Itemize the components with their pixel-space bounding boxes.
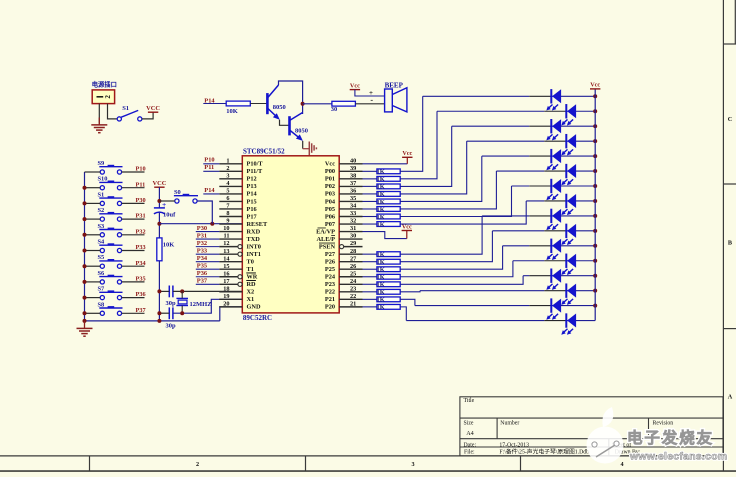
svg-text:P36: P36 <box>136 291 146 298</box>
pin 10 RXD <box>219 225 260 235</box>
svg-text:INT1: INT1 <box>247 251 261 258</box>
svg-text:S1: S1 <box>98 191 105 198</box>
svg-text:S9: S9 <box>98 160 105 167</box>
svg-text:C: C <box>728 116 732 123</box>
svg-text:1K: 1K <box>377 221 385 228</box>
svg-text:16: 16 <box>223 270 229 277</box>
pin 5 P14 <box>219 188 257 198</box>
wire connector pin2 to S1 <box>108 104 118 119</box>
svg-text:PSEN: PSEN <box>319 243 336 250</box>
svg-text:T1: T1 <box>247 266 254 273</box>
svg-text:1K: 1K <box>377 304 385 311</box>
svg-text:3: 3 <box>226 172 229 179</box>
svg-text:S7: S7 <box>98 286 106 293</box>
svg-text:P06: P06 <box>325 213 335 220</box>
junction <box>593 229 597 233</box>
svg-text:RESET: RESET <box>247 221 268 228</box>
svg-text:17-Oct-2013: 17-Oct-2013 <box>499 443 529 449</box>
junction <box>593 274 597 278</box>
resistor 1K (P20) <box>363 306 377 308</box>
svg-text:24: 24 <box>350 278 357 285</box>
junction <box>593 109 597 113</box>
wire VCC to capacitor <box>158 187 160 208</box>
pin 40 Vcc <box>325 157 363 167</box>
junction <box>83 280 87 284</box>
svg-text:31: 31 <box>350 225 356 232</box>
svg-text:18: 18 <box>223 285 229 292</box>
wire S5 to net P34 <box>122 265 145 267</box>
svg-text:X2: X2 <box>247 289 255 296</box>
sheet border bottom strip <box>0 455 723 457</box>
svg-text:P05: P05 <box>325 206 335 213</box>
pin 26 P25 <box>325 263 363 273</box>
svg-text:30: 30 <box>350 233 356 240</box>
wire S7 to net P36 <box>122 297 145 299</box>
svg-text:RXD: RXD <box>247 228 261 235</box>
svg-text:10K: 10K <box>163 242 175 249</box>
resistor 1K (P23) <box>363 283 377 285</box>
wire P24 to LED D12 <box>400 261 513 277</box>
svg-text:6: 6 <box>226 195 229 202</box>
svg-text:30p: 30p <box>166 323 177 330</box>
resistor 1K (P06) <box>363 216 377 218</box>
svg-text:P31: P31 <box>136 213 146 220</box>
resistor R2 10K (reset) <box>157 238 162 261</box>
svg-text:10: 10 <box>223 225 229 232</box>
resistor 1K (P21) <box>363 298 377 300</box>
svg-text:1K: 1K <box>377 297 385 304</box>
ground rail wire <box>85 320 220 322</box>
svg-text:P16: P16 <box>247 206 257 213</box>
junction <box>593 244 597 248</box>
junction <box>593 259 597 263</box>
wire Q1 emitter to Q2 base <box>280 120 290 126</box>
svg-text:2: 2 <box>226 165 229 172</box>
svg-text:1K: 1K <box>377 251 385 258</box>
svg-text:25: 25 <box>350 270 356 277</box>
svg-text:40: 40 <box>350 157 356 164</box>
wire P00 to LED D1 <box>400 96 423 171</box>
junction <box>83 264 87 268</box>
LED D7 <box>550 179 552 193</box>
svg-text:11: 11 <box>224 233 230 240</box>
pin 2 P11/T <box>219 165 263 175</box>
svg-text:Vcc: Vcc <box>350 82 360 89</box>
LED D5 <box>550 149 552 163</box>
wire C3 to X1 pin <box>173 299 242 313</box>
svg-text:P22: P22 <box>325 289 335 296</box>
wire Q1 collector rail <box>279 81 303 114</box>
pin 34 P05 <box>325 203 363 213</box>
wire S2 to net P31 <box>122 218 145 220</box>
svg-text:P30: P30 <box>136 197 146 204</box>
svg-text:P24: P24 <box>325 274 336 281</box>
svg-text:P02: P02 <box>325 183 335 190</box>
svg-text:VCC: VCC <box>146 105 160 112</box>
svg-text:1K: 1K <box>377 199 385 206</box>
junction <box>593 154 597 158</box>
ground (power input) <box>98 118 100 125</box>
svg-text:P11: P11 <box>204 164 214 171</box>
pin 30 ALE/P <box>316 233 362 243</box>
wire connector pin1 to ground <box>98 104 100 124</box>
pin 31 EA/VP <box>316 225 362 235</box>
junction <box>593 124 597 128</box>
svg-text:14: 14 <box>223 255 230 262</box>
svg-text:电子发烧友: 电子发烧友 <box>627 428 714 447</box>
svg-text:Vcc: Vcc <box>590 82 600 89</box>
resistor 1K (P22) <box>363 291 377 293</box>
pin 28 P27 <box>325 248 363 258</box>
wire P04 to LED D5 <box>400 156 482 201</box>
crystal Y1 12MHZ <box>176 297 188 299</box>
resistor 1K (P07) <box>363 223 377 225</box>
svg-text:P25: P25 <box>325 266 335 273</box>
wire S0 to reset wire <box>197 201 212 224</box>
svg-text:P17: P17 <box>247 213 257 220</box>
svg-text:S0: S0 <box>174 189 181 196</box>
svg-text:T0: T0 <box>247 258 254 265</box>
button bus wire <box>84 172 86 321</box>
svg-text:35: 35 <box>350 195 356 202</box>
svg-text:P11: P11 <box>136 181 146 188</box>
LED D12 <box>565 254 567 268</box>
wire S9 to net P10 <box>122 171 145 173</box>
svg-text:Number: Number <box>500 421 519 427</box>
svg-text:P07: P07 <box>325 221 335 228</box>
svg-text:4: 4 <box>620 461 623 468</box>
pin 4 P13 <box>219 180 256 190</box>
resistor 1K (P27) <box>363 253 377 255</box>
svg-text:P20: P20 <box>325 304 335 311</box>
svg-text:22: 22 <box>350 293 356 300</box>
wire P21 to LED D15 <box>400 299 415 305</box>
resistor R1 10K (base) <box>226 101 250 106</box>
pin 13 INT1 <box>219 248 261 258</box>
svg-text:P31: P31 <box>197 232 207 239</box>
junction <box>83 296 87 300</box>
junction <box>157 199 161 203</box>
pushbutton S0 <box>175 199 179 203</box>
pin 36 P03 <box>325 188 363 198</box>
svg-text:INT0: INT0 <box>247 243 261 250</box>
wire pin31 EA to Vcc <box>363 232 407 239</box>
svg-text:1: 1 <box>226 157 229 164</box>
wire P03 to LED D4 <box>400 141 467 194</box>
svg-text:1K: 1K <box>377 282 385 289</box>
svg-text:8050: 8050 <box>273 104 286 111</box>
svg-text:1K: 1K <box>377 206 385 213</box>
pushbutton S3 <box>100 233 104 237</box>
wire P25 to LED D11 <box>400 246 502 269</box>
svg-text:P32: P32 <box>197 240 207 247</box>
LED D15 <box>550 298 552 312</box>
sheet border right column <box>722 0 724 471</box>
pin 17 RD <box>219 278 256 288</box>
svg-text:P01: P01 <box>325 176 335 183</box>
pin 3 P12 <box>219 172 256 182</box>
title block <box>460 397 723 456</box>
svg-text:17: 17 <box>223 278 229 285</box>
wire gnd line to C3 <box>159 312 169 314</box>
svg-text:File:: File: <box>464 449 475 455</box>
resistor 1K (P02) <box>363 185 377 187</box>
svg-text:34: 34 <box>350 203 357 210</box>
wire P06 to LED D7 <box>400 186 511 217</box>
resistor 1K (P05) <box>363 208 377 210</box>
resistor R3 30 <box>332 101 356 106</box>
pin 23 P22 <box>325 285 363 295</box>
svg-text:P35: P35 <box>197 262 207 269</box>
pin 16 WR <box>219 270 257 280</box>
svg-text:7: 7 <box>226 203 229 210</box>
svg-text:1K: 1K <box>377 176 385 183</box>
wire bus to S3 <box>85 234 101 236</box>
svg-text:P23: P23 <box>325 281 335 288</box>
svg-text:Size: Size <box>464 421 474 427</box>
svg-text:-: - <box>370 96 373 105</box>
svg-text:A4: A4 <box>466 430 474 437</box>
svg-text:39: 39 <box>350 165 356 172</box>
wire bus to S4 <box>85 250 101 252</box>
wire bus to S2 <box>85 218 101 220</box>
junction <box>83 201 87 205</box>
svg-text:P13: P13 <box>247 183 257 190</box>
svg-text:30: 30 <box>331 106 338 113</box>
pin 24 P23 <box>325 278 363 288</box>
wire P23 to LED D13 <box>400 276 523 285</box>
junction <box>157 319 161 323</box>
pin 21 P20 <box>325 300 363 310</box>
junction <box>593 94 597 98</box>
resistor 1K (P24) <box>363 276 377 278</box>
wire 30 ohm to speaker <box>355 103 384 105</box>
wire 10K to Q1 base <box>250 103 266 105</box>
pin 20 GND <box>219 300 261 310</box>
svg-text:S4: S4 <box>98 239 106 246</box>
ground (button bus) <box>84 321 86 328</box>
svg-text:13: 13 <box>223 248 229 255</box>
pin 1 P10/T <box>219 157 263 167</box>
pushbutton S10 <box>100 186 104 190</box>
svg-text:P32: P32 <box>136 228 146 235</box>
pin 7 P16 <box>219 203 256 213</box>
svg-text:20: 20 <box>223 300 229 307</box>
svg-text:23: 23 <box>350 285 356 292</box>
LED D2 <box>565 104 567 118</box>
svg-text:X1: X1 <box>247 296 255 303</box>
svg-text:S2: S2 <box>98 207 105 214</box>
wire P01 to LED D2 <box>400 111 437 179</box>
svg-text:Title: Title <box>464 398 475 404</box>
svg-text:21: 21 <box>350 300 356 307</box>
junction <box>593 139 597 143</box>
svg-text:S5: S5 <box>98 254 105 261</box>
svg-text:P35: P35 <box>136 276 146 283</box>
pin 19 X1 <box>219 293 254 303</box>
wire P27 to LED D9 <box>400 216 482 254</box>
junction <box>83 186 87 190</box>
LED D6 <box>565 164 567 178</box>
svg-text:15: 15 <box>223 263 229 270</box>
svg-text:19: 19 <box>223 293 229 300</box>
junction <box>83 233 87 237</box>
wire S1 to VCC <box>142 112 153 119</box>
wire bus to S9 <box>85 171 101 173</box>
svg-text:B: B <box>728 240 732 247</box>
pin 14 T0 <box>219 255 254 265</box>
wire P05 to LED D6 <box>400 171 496 209</box>
LED D3 <box>550 119 552 133</box>
pushbutton S8 <box>100 311 104 315</box>
svg-text:1K: 1K <box>377 259 385 266</box>
pin 38 P01 <box>325 172 363 182</box>
svg-text:RD: RD <box>247 281 257 288</box>
wire VCC to S0 <box>159 200 174 202</box>
wire P14 to 10K <box>203 103 226 105</box>
svg-text:89C52RC: 89C52RC <box>243 314 272 322</box>
LED D1 <box>550 89 552 103</box>
pin 25 P24 <box>325 270 363 280</box>
svg-text:VCC: VCC <box>152 180 166 187</box>
svg-text:P15: P15 <box>247 198 257 205</box>
pin 12 INT0 <box>219 240 261 250</box>
wire S3 to net P32 <box>122 234 145 236</box>
transistor Q2 8050 <box>288 116 291 135</box>
svg-text:TXD: TXD <box>247 236 261 243</box>
LED D16 <box>565 313 567 327</box>
pin 18 X2 <box>219 285 254 295</box>
wire gnd line to C2 <box>159 290 169 292</box>
wire C2 to X2 pin <box>173 290 242 292</box>
pin 6 P15 <box>219 195 256 205</box>
svg-text:P26: P26 <box>325 258 335 265</box>
junction <box>593 184 597 188</box>
junction <box>83 249 87 253</box>
svg-text:ALE/P: ALE/P <box>316 236 335 243</box>
pushbutton S5 <box>100 264 104 268</box>
svg-text:P37: P37 <box>136 307 146 314</box>
svg-text:P21: P21 <box>325 296 335 303</box>
pushbutton S6 <box>100 280 104 284</box>
wire P02 to LED D3 <box>400 126 452 186</box>
svg-text:P34: P34 <box>197 255 208 262</box>
svg-text:30p: 30p <box>166 300 177 307</box>
pin 15 T1 <box>219 263 254 273</box>
ground (Q2 emitter) <box>303 148 310 150</box>
pin 33 P06 <box>325 210 363 220</box>
svg-text:P10/T: P10/T <box>247 161 264 168</box>
junction <box>593 289 597 293</box>
junction <box>593 214 597 218</box>
LED D9 <box>550 209 552 223</box>
svg-text:A: A <box>728 394 733 401</box>
svg-text:1K: 1K <box>377 214 385 221</box>
wire P22 to LED D14 <box>400 291 420 292</box>
svg-text:1K: 1K <box>377 267 385 274</box>
pushbutton S1 <box>100 201 104 205</box>
svg-text:S1: S1 <box>122 105 129 112</box>
svg-text:1K: 1K <box>377 289 385 296</box>
svg-text:2: 2 <box>196 461 199 468</box>
svg-text:S10: S10 <box>98 176 108 183</box>
svg-text:F:\备件\25-声光电子琴\原理图1.Ddb: F:\备件\25-声光电子琴\原理图1.Ddb <box>499 447 589 455</box>
junction <box>83 217 87 221</box>
svg-text:P10: P10 <box>204 157 214 164</box>
watermark <box>587 407 728 464</box>
svg-text:12MHZ: 12MHZ <box>190 301 212 308</box>
svg-text:32: 32 <box>350 218 356 225</box>
pushbutton S4 <box>100 248 104 252</box>
svg-text:P11/T: P11/T <box>247 168 264 175</box>
svg-text:电源插口: 电源插口 <box>92 80 117 89</box>
pin 39 P00 <box>325 165 363 175</box>
wire Vcc to speaker + <box>355 90 385 96</box>
svg-text:P00: P00 <box>325 168 335 175</box>
wire ground rail to GND pin <box>220 307 243 321</box>
pushbutton S9 <box>100 170 104 174</box>
wire bus to S6 <box>85 281 101 283</box>
svg-text:P14: P14 <box>204 187 215 194</box>
junction <box>180 289 184 293</box>
junction <box>83 311 87 315</box>
svg-text:P36: P36 <box>197 270 208 277</box>
svg-text:8: 8 <box>226 210 229 217</box>
pin 8 P17 <box>219 210 256 220</box>
svg-text:WR: WR <box>247 274 258 281</box>
Vcc bus wire <box>594 89 596 321</box>
svg-text:5: 5 <box>226 188 229 195</box>
wire Q2 emitter down <box>302 141 304 149</box>
wire S8 to net P37 <box>122 312 145 314</box>
resistor 1K (P00) <box>363 170 377 172</box>
pushbutton S2 <box>100 217 104 221</box>
wire P07 to LED D8 <box>400 201 526 224</box>
resistor 1K (P03) <box>363 193 377 195</box>
svg-text:37: 37 <box>350 180 356 187</box>
svg-text:P33: P33 <box>197 247 207 254</box>
svg-text:P04: P04 <box>325 198 336 205</box>
pushbutton S7 <box>100 296 104 300</box>
svg-text:33: 33 <box>350 210 356 217</box>
junction <box>157 222 161 226</box>
svg-text:Date:: Date: <box>464 443 477 449</box>
svg-text:P33: P33 <box>136 244 146 251</box>
wire bus to S8 <box>85 312 101 314</box>
junction <box>210 222 214 226</box>
wire S6 to net P35 <box>122 281 145 283</box>
wire bus to S5 <box>85 265 101 267</box>
wire bus to S1 <box>85 202 101 204</box>
svg-text:S8: S8 <box>98 301 105 308</box>
IC U1 STC89C51/52 89C52RC <box>242 156 339 313</box>
wire P26 to LED D10 <box>400 231 492 262</box>
LED D4 <box>565 134 567 148</box>
svg-text:P12: P12 <box>247 176 257 183</box>
svg-text:www.elecfans.com: www.elecfans.com <box>629 452 727 463</box>
LED D11 <box>550 239 552 253</box>
LED D13 <box>550 269 552 283</box>
svg-text:1K: 1K <box>377 274 385 281</box>
svg-text:S3: S3 <box>98 223 105 230</box>
svg-text:1K: 1K <box>377 184 385 191</box>
svg-text:28: 28 <box>350 248 356 255</box>
svg-text:Vcc: Vcc <box>325 161 335 168</box>
wire S10 to net P11 <box>122 187 145 189</box>
svg-text:P14: P14 <box>247 191 258 198</box>
resistor 1K (P01) <box>363 178 377 180</box>
LED D10 <box>565 224 567 238</box>
